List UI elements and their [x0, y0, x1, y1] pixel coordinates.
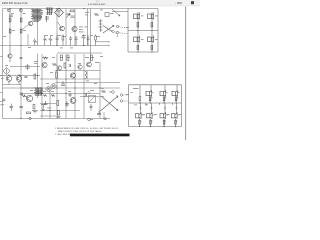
capacitor C4	[20, 93, 24, 94]
resistor R3	[9, 29, 11, 33]
capacitor C3	[61, 81, 65, 85]
extra mid-section wiring	[10, 67, 120, 117]
capacitor C18	[24, 77, 27, 78]
input stage dense network	[31, 8, 53, 23]
wire: top row emitter stubs	[150, 97, 176, 104]
svg-text:1 / 1: 1 / 1	[96, 1, 100, 3]
wire: vertical x100	[99, 62, 101, 119]
wire: top row collector stubs	[151, 85, 177, 92]
ground symbol GND1	[41, 105, 46, 111]
output crossover wires with arrows (bottom)	[101, 96, 118, 111]
emitter resistor R22	[137, 46, 139, 50]
bank junction dots	[139, 102, 177, 127]
resistor R41	[64, 63, 66, 68]
resistor R36	[95, 36, 97, 40]
transistor Q14	[146, 90, 152, 97]
wire: bottom row collector stubs	[141, 103, 177, 114]
transistor Q9	[134, 36, 140, 43]
capacitor C2	[71, 16, 75, 17]
wire: vertical x21	[20, 9, 22, 119]
transistor Q22	[57, 66, 61, 70]
resistor R35	[82, 35, 86, 46]
resistor R11	[56, 72, 58, 78]
wire: block mid rail	[128, 30, 158, 32]
resistor R32	[43, 36, 47, 46]
resistor R19 on left stub	[139, 97, 141, 101]
resistor R10	[52, 63, 57, 65]
capacitor C15	[20, 58, 23, 59]
bridge rectifier D1 diamond	[55, 8, 64, 17]
connector J4	[109, 91, 114, 94]
svg-text:SEMICONDUCTORS ON PC-14 PER TA: SEMICONDUCTORS ON PC-14 PER TABLE.	[58, 130, 103, 133]
emitter resistor R20	[137, 23, 139, 28]
transistor Q19	[160, 112, 166, 119]
resistor R38	[61, 55, 63, 61]
resistor R42 with arrow	[66, 14, 71, 19]
left margin connector marks	[0, 56, 2, 105]
input connector J2	[19, 9, 22, 12]
resistor R14	[101, 90, 106, 92]
wire y70	[55, 70, 100, 72]
viewer toolbar	[0, 0, 200, 6]
capacitor C14	[87, 35, 90, 46]
svg-text:A SPEAKER AMP: A SPEAKER AMP	[88, 3, 106, 6]
transistor Q1	[60, 26, 65, 31]
resistor R6	[105, 13, 109, 17]
connector J9	[3, 99, 6, 101]
page right border	[184, 7, 187, 141]
svg-text:1 RESISTANCE IN OHM 1/4W 5%,: 1 RESISTANCE IN OHM 1/4W 5%, K=1000. CAP…	[55, 127, 119, 130]
resistor R4	[20, 29, 22, 33]
wire to top output block	[112, 11, 128, 13]
wire: bottom row emitter stubs	[140, 118, 176, 126]
transistor Q23	[78, 65, 82, 69]
varistor D6 diamond	[3, 68, 10, 75]
diode pair D2	[85, 71, 87, 79]
transistor Q2	[6, 74, 12, 84]
transistor Q10	[148, 36, 154, 43]
resistor R8	[25, 64, 30, 70]
emitter resistor R30	[175, 120, 177, 124]
wire: bottom bus	[3, 118, 111, 120]
wire diagonal into Q1	[58, 22, 61, 27]
wire y53	[57, 52, 102, 54]
resistor R5	[70, 10, 74, 12]
wire diagonal to connector	[112, 9, 120, 16]
component column x92-100 y20-33	[99, 19, 103, 32]
capacitor C5	[20, 107, 24, 108]
dense middle cluster rows	[43, 93, 72, 105]
emitter resistor R24	[149, 97, 151, 101]
output crossover wires (top)	[103, 25, 114, 33]
resistor R40	[91, 55, 93, 61]
transistor Q5	[42, 62, 47, 67]
wire: top bus	[3, 8, 129, 10]
wire: bank right vertical	[181, 85, 183, 127]
transistor Q25	[72, 26, 77, 31]
connector J7	[116, 31, 128, 33]
component cluster x65-69 y103	[65, 102, 69, 107]
capacitor C17	[75, 36, 78, 46]
wire y66 stub	[10, 66, 40, 68]
capacitor C6	[97, 111, 101, 115]
notes text block	[55, 127, 119, 136]
capacitor C16	[69, 36, 72, 46]
connector J10	[29, 117, 31, 119]
svg-text:↓ 98%: ↓ 98%	[175, 1, 183, 5]
transistor Q16	[172, 90, 178, 97]
capacitor C1	[9, 15, 13, 16]
connector J5	[88, 118, 94, 121]
value labels scattered (illegible at scan size)	[1, 13, 182, 115]
wire: left schematic border	[2, 9, 4, 119]
wire: vertical x37.5	[37, 9, 39, 99]
wire y116	[40, 115, 56, 117]
capacitor C13	[56, 35, 59, 46]
label marks R6	[100, 10, 114, 14]
connector J6	[120, 94, 128, 96]
wire: inner verticals	[138, 12, 152, 52]
resistor R43	[57, 111, 61, 118]
transistor Q12	[26, 95, 32, 101]
resistor R9	[34, 74, 36, 79]
bank labels	[131, 88, 180, 122]
transistor Q8	[148, 13, 154, 20]
input connector J1	[7, 9, 10, 12]
diode D4	[69, 64, 71, 67]
wire: block right	[157, 9, 159, 53]
transistor Q3	[16, 74, 22, 84]
wire: bus y110	[40, 110, 80, 112]
junction dots	[9, 8, 173, 119]
resistor R15 with ground	[32, 105, 38, 113]
bridge diamond D7	[51, 83, 57, 89]
wire: bank top rail	[129, 84, 182, 86]
transistor Q17	[136, 112, 142, 119]
dense cluster x33-40 y88-98	[34, 88, 43, 97]
wire y88 left	[20, 87, 40, 89]
transistor Q21	[8, 54, 12, 58]
wire: vertical x88	[90, 9, 92, 63]
resistor R33	[49, 36, 53, 46]
wire: bank mid rail	[129, 102, 182, 104]
resistor R34	[62, 36, 64, 40]
connector J8	[120, 100, 128, 102]
diode D5 labels	[79, 12, 89, 32]
connector J3	[116, 25, 128, 28]
emitter resistor R23	[151, 46, 153, 50]
label marks near Q5	[34, 61, 38, 64]
wire: vertical x50	[49, 90, 51, 119]
wire: vertical x84	[84, 9, 88, 119]
wire y79	[40, 78, 100, 80]
wire: vertical x42	[41, 54, 43, 119]
wire: bus y88	[3, 87, 121, 89]
transistor Q20	[172, 112, 178, 119]
transistor Q13	[70, 98, 76, 104]
wire y103.5	[40, 103, 56, 105]
resistor R37	[43, 57, 48, 59]
transistor Q7	[134, 13, 140, 20]
resistor R39	[67, 55, 69, 61]
wire y84.5	[3, 84, 22, 86]
resistor R13	[27, 112, 31, 114]
transistor Q18	[147, 112, 153, 119]
wire: vertical x66	[65, 9, 67, 119]
resistor R44	[57, 101, 59, 106]
wire: left stub x140	[139, 85, 141, 96]
wire arc to bus end	[111, 30, 118, 37]
redaction bar	[70, 134, 130, 137]
wire: bank left vertical	[128, 85, 130, 127]
LED D3	[84, 91, 90, 97]
emitter resistor R29	[163, 120, 165, 124]
emitter resistor R21	[151, 23, 153, 28]
resistor R7 zigzag	[94, 13, 99, 15]
wire x104 lower stub	[103, 112, 105, 119]
emitter resistor R27	[139, 120, 141, 124]
transistor Q6	[70, 73, 75, 78]
wire: bus y93	[21, 93, 100, 95]
band y54-61 components	[8, 46, 93, 63]
wire y96.5	[80, 96, 104, 98]
stub resistor marks mid	[140, 108, 178, 110]
wire: vertical x75	[74, 9, 76, 119]
bridge diamond D8	[46, 86, 52, 92]
wire: stub y41.8	[95, 41, 109, 43]
wire: vertical x10	[9, 9, 11, 46]
transistor Q15	[160, 90, 166, 97]
wire: vertical x28	[27, 34, 29, 46]
transistor Q11	[87, 62, 92, 67]
resistor R2	[20, 18, 22, 22]
emitter resistor R25	[163, 97, 165, 101]
wire: block frame top	[128, 8, 158, 10]
resistor R1	[9, 18, 11, 22]
emitter resistor R26	[175, 97, 177, 101]
capacitor C8	[104, 118, 107, 119]
wire diagonal to Q24	[21, 25, 28, 31]
relay K1 box	[89, 96, 96, 103]
svg-text:E350 500 Series-9 4w: E350 500 Series-9 4w	[2, 1, 28, 5]
wire: vertical x57	[56, 9, 58, 119]
connector end marks	[108, 41, 110, 46]
wire: block bottom rail	[128, 51, 158, 53]
ground symbol row components y35-42	[33, 35, 96, 46]
wire: bus y75	[0, 75, 40, 77]
wire: mid bus y45	[0, 45, 109, 47]
wire: bank bottom rail	[129, 126, 182, 128]
capacitor C19	[90, 104, 93, 111]
emitter resistor R28	[150, 120, 152, 124]
capacitor C7	[10, 104, 14, 111]
resistor R12	[22, 95, 27, 97]
transistor Q24	[28, 21, 33, 26]
resistor R31	[33, 39, 37, 46]
wire y82.5	[55, 82, 120, 84]
wire: block left	[127, 9, 129, 53]
